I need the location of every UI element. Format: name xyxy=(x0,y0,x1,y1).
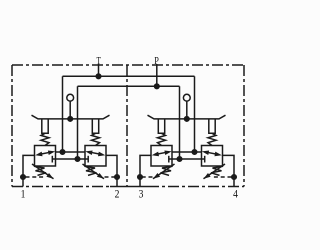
wire port2 L xyxy=(106,155,117,186)
node port1 pilot xyxy=(21,175,26,180)
wire inter-box lower xyxy=(52,158,88,160)
wire inter-box upper xyxy=(56,151,86,153)
lever xyxy=(32,115,110,119)
valve V1 flow arrow xyxy=(38,152,53,155)
wire T rail xyxy=(63,75,195,77)
wire T stub xyxy=(98,64,100,77)
adjustable spring V1 xyxy=(34,166,46,175)
node P drop junction xyxy=(75,157,80,162)
left valve group xyxy=(21,76,120,186)
node stem-lever junction xyxy=(68,117,73,122)
node T drop junction xyxy=(60,150,65,155)
wire roller stem xyxy=(69,101,71,119)
valve V2 seat bar xyxy=(87,156,89,163)
spring S1 xyxy=(41,133,49,145)
wire port1 L xyxy=(23,155,35,186)
valve box V1 xyxy=(35,146,56,167)
roller circle xyxy=(67,94,74,101)
pilot dashed line V1 xyxy=(26,176,45,178)
wire P drop xyxy=(77,86,79,159)
adjustable spring V2 xyxy=(85,166,97,175)
enclosure divider line xyxy=(126,65,128,187)
node P junction xyxy=(155,84,160,89)
right valve group (mirror) xyxy=(138,76,237,186)
svg-text:1: 1 xyxy=(21,188,26,200)
svg-text:P: P xyxy=(154,56,159,67)
node T junction xyxy=(96,74,101,79)
plunger cup C2 xyxy=(92,119,98,133)
svg-text:3: 3 xyxy=(139,188,144,200)
wire P rail xyxy=(78,85,180,87)
plunger cup C1 xyxy=(42,119,48,133)
enclosure bottom solid segment xyxy=(110,186,148,188)
svg-text:4: 4 xyxy=(233,188,238,200)
valve V1 seat bar xyxy=(51,156,53,163)
wire T drop xyxy=(62,76,64,152)
node port2 pilot xyxy=(115,175,120,180)
valve V2 flow arrow xyxy=(88,152,103,155)
svg-text:2: 2 xyxy=(115,188,120,200)
enclosure dash-dot border xyxy=(12,65,244,187)
svg-text:T: T xyxy=(97,56,102,67)
wire P stub xyxy=(156,64,158,86)
valve box V2 xyxy=(85,146,106,167)
spring S2 xyxy=(92,133,100,145)
pilot dashed line V2 xyxy=(105,176,118,178)
